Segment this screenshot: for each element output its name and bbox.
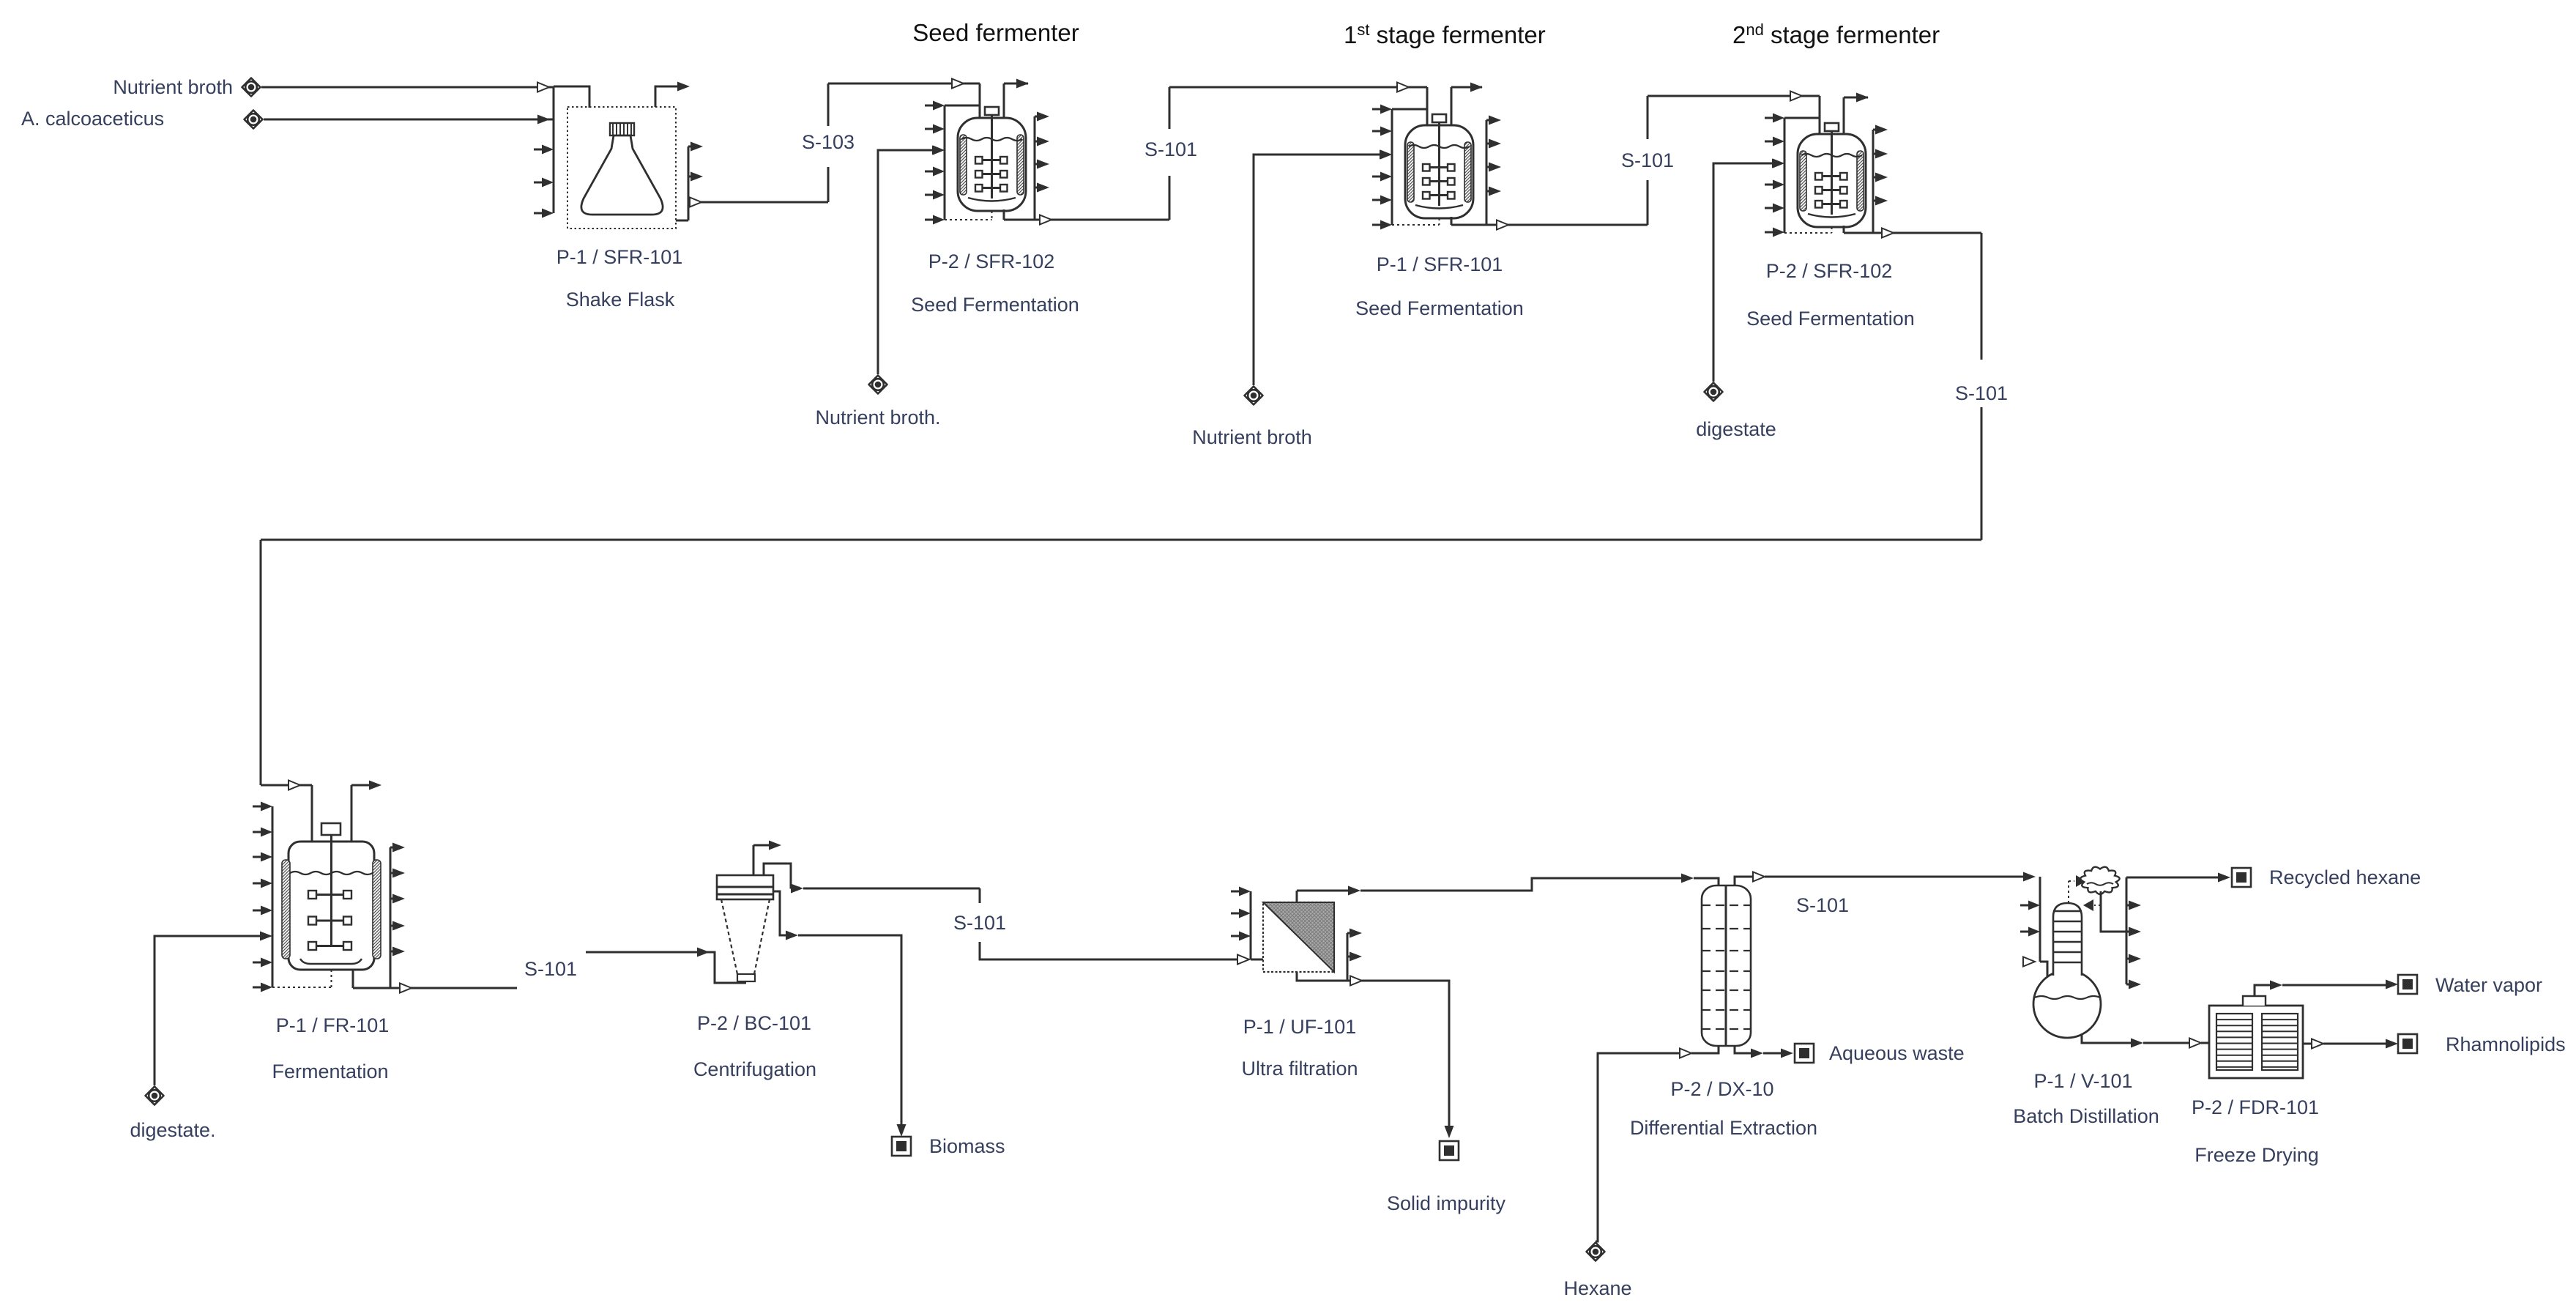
unit SFR-101: right manifold xyxy=(688,146,690,220)
svg-text:P-2 / FDR-101: P-2 / FDR-101 xyxy=(2192,1096,2319,1118)
unit V-101: left manifold xyxy=(2039,877,2041,962)
svg-text:Nutrient broth: Nutrient broth xyxy=(1192,426,1312,448)
svg-text:1st stage fermenter: 1st stage fermenter xyxy=(1344,21,1546,48)
svg-text:P-2 / SFR-102: P-2 / SFR-102 xyxy=(1766,260,1893,282)
svg-text:P-1 / FR-101: P-1 / FR-101 xyxy=(276,1014,390,1036)
wire: digestate riser to 2nd stage fermenter xyxy=(1713,163,1773,382)
wire: UF-101 bottom outlet to Solid impurity xyxy=(1297,972,1445,981)
wire: BC-101 cake stream down to Biomass xyxy=(773,891,794,935)
wire: FR-101 outlet xyxy=(352,970,354,988)
wire S-101 d: run to label riser xyxy=(803,888,980,890)
svg-text:Fermentation: Fermentation xyxy=(272,1061,388,1082)
wire: DX-10 bottom outlet to Aqueous waste xyxy=(1735,1046,1760,1053)
unit SFR-101 shake flask: left manifold xyxy=(553,86,555,213)
svg-text:Seed Fermentation: Seed Fermentation xyxy=(911,294,1079,316)
svg-text:Differential Extraction: Differential Extraction xyxy=(1630,1117,1817,1139)
unit V-101: column neck xyxy=(2053,903,2082,976)
svg-text:S-101: S-101 xyxy=(524,958,577,980)
wire: 1st stage outlet to S-101 riser xyxy=(1451,224,1648,226)
wire S-101 long: down riser segments xyxy=(1981,233,1983,360)
unit UF-101: right manifold xyxy=(1347,933,1349,981)
svg-text:digestate.: digestate. xyxy=(130,1119,215,1141)
svg-text:Hexane: Hexane xyxy=(1563,1277,1631,1299)
wire: feed into FR-101 xyxy=(261,784,312,787)
unit FR-101: bottom dish xyxy=(300,959,362,964)
unit SFR-101: dotted enclosure box xyxy=(567,107,676,229)
svg-text:Batch Distillation: Batch Distillation xyxy=(2013,1105,2159,1127)
unit SFR-102 2nd stage fermenter vessel and manifolds xyxy=(1784,118,1786,233)
node: Recycled hexane output icon xyxy=(2232,868,2251,887)
svg-text:Aqueous waste: Aqueous waste xyxy=(1829,1042,1965,1064)
svg-text:Freeze Drying: Freeze Drying xyxy=(2195,1144,2319,1166)
node: Hexane input icon xyxy=(1587,1243,1605,1261)
wire S-103: shake flask outlet xyxy=(688,201,828,204)
unit V-101: condenser cloud xyxy=(2080,867,2119,894)
unit FDR-101: left shelf stack xyxy=(2216,1014,2252,1070)
wire: Nutrient broth riser to 1st stage fermenter xyxy=(1254,155,1381,385)
node: Nutrient broth. input icon xyxy=(869,376,887,394)
wire: FDR-101 product to Rhamnolipids xyxy=(2303,1043,2318,1045)
unit SFR-101: erlenmeyer flask body xyxy=(581,135,663,215)
svg-text:P-1 / UF-101: P-1 / UF-101 xyxy=(1243,1016,1357,1038)
wire: BC-101 overflow zigzag out xyxy=(764,864,800,888)
unit FDR-101: top notch xyxy=(2243,996,2266,1006)
node: A. calcoaceticus input icon xyxy=(245,111,263,129)
wire: box bottom to right manifold xyxy=(676,220,688,222)
wire: digestate. riser to FR-101 xyxy=(155,936,261,1085)
wire S-103: top run into SFR-102 xyxy=(828,83,980,85)
unit DX-10: column body xyxy=(1702,885,1751,1046)
unit V-101: dashed vapor line to condenser xyxy=(2068,881,2069,903)
svg-text:S-101: S-101 xyxy=(1144,138,1197,160)
unit SFR-102 seed fermenter vessel and manifolds xyxy=(944,105,946,220)
wire: SFR-102 outlet to S-101 riser xyxy=(1004,219,1169,221)
svg-text:Seed Fermentation: Seed Fermentation xyxy=(1746,308,1915,330)
svg-text:Nutrient broth.: Nutrient broth. xyxy=(815,406,940,428)
unit FR-101: left manifold xyxy=(272,806,274,987)
unit UF-101: left manifold xyxy=(1250,891,1252,959)
unit BC-101: top rectangle xyxy=(717,875,773,899)
unit V-101: flask liquid wavy xyxy=(2035,996,2100,999)
wire S-103: riser segments xyxy=(827,167,830,202)
svg-text:A. calcoaceticus: A. calcoaceticus xyxy=(21,108,164,130)
unit V-101: reflux dashed arrow xyxy=(2094,905,2101,906)
svg-text:Nutrient broth: Nutrient broth xyxy=(113,76,233,98)
node: Solid impurity output icon xyxy=(1440,1141,1459,1160)
svg-text:P-1 / V-101: P-1 / V-101 xyxy=(2033,1070,2132,1092)
wire: 2nd stage outlet xyxy=(1844,232,1981,234)
svg-text:P-2 / DX-10: P-2 / DX-10 xyxy=(1670,1078,1773,1100)
unit SFR-101: flask cap xyxy=(610,123,634,135)
svg-text:S-101: S-101 xyxy=(953,912,1006,934)
svg-text:Recycled hexane: Recycled hexane xyxy=(2269,866,2421,888)
unit FR-101: vent xyxy=(351,785,353,844)
svg-text:S-101: S-101 xyxy=(1796,894,1849,916)
unit FR-101: vessel xyxy=(289,842,374,970)
unit FDR-101: right shelf stack xyxy=(2262,1014,2298,1070)
wire S-101: top run into SFR-101 xyxy=(1169,86,1427,89)
unit FR-101: right manifold xyxy=(390,847,392,988)
svg-text:S-101: S-101 xyxy=(1621,149,1674,171)
wire: condenser outlet to right manifold xyxy=(2101,891,2126,932)
wire: A. calcoaceticus to shake-flask manifold xyxy=(264,119,554,121)
wire S-101 long: down to fermentation xyxy=(260,540,262,785)
svg-text:P-2 / SFR-102: P-2 / SFR-102 xyxy=(928,250,1055,272)
unit V-101: flask body xyxy=(2033,970,2101,1038)
unit BC-101: cone xyxy=(721,899,770,974)
wire S-101 b: top run into 2nd stage xyxy=(1648,95,1820,97)
svg-text:S-101: S-101 xyxy=(1955,382,2008,404)
svg-text:Centrifugation: Centrifugation xyxy=(693,1058,816,1080)
node: Biomass output icon xyxy=(892,1137,911,1156)
wire S-101 b: riser segments xyxy=(1647,180,1649,225)
node: Water vapor output icon xyxy=(2398,975,2417,994)
svg-text:2nd stage fermenter: 2nd stage fermenter xyxy=(1732,21,1940,48)
wire: DX-10 top outlet to V-101 xyxy=(1735,877,1760,885)
unit FR-101: cap and shaft xyxy=(321,823,340,835)
wire: Nutrient broth to shake-flask manifold xyxy=(261,86,554,89)
svg-text:Rhamnolipids: Rhamnolipids xyxy=(2446,1033,2566,1055)
wire: feed into shake flask box xyxy=(554,86,589,108)
svg-text:Shake Flask: Shake Flask xyxy=(566,289,675,311)
wire: FDR-101 vent to Water vapor xyxy=(2255,985,2279,996)
svg-text:P-1 / SFR-101: P-1 / SFR-101 xyxy=(556,246,683,268)
node: Nutrient broth input icon xyxy=(242,78,261,97)
unit FR-101: liquid wavy line xyxy=(290,872,373,874)
node: Aqueous waste output icon xyxy=(1795,1044,1814,1063)
unit BC-101: bottom spout xyxy=(737,974,755,981)
unit BC-101: vent xyxy=(753,845,755,875)
unit DX-10: trays xyxy=(1702,905,1751,906)
svg-text:Seed fermenter: Seed fermenter xyxy=(912,19,1079,46)
svg-text:digestate: digestate xyxy=(1696,418,1776,440)
wire: Hexane riser into DX-10 bottom xyxy=(1596,1053,1687,1241)
wire: UF-101 top outlet to DX-10 xyxy=(1296,891,1298,902)
svg-text:S-103: S-103 xyxy=(802,131,855,153)
svg-text:Ultra filtration: Ultra filtration xyxy=(1241,1058,1358,1080)
svg-text:P-1 / SFR-101: P-1 / SFR-101 xyxy=(1377,253,1503,275)
unit V-101: column trays xyxy=(2053,910,2082,912)
unit UF-101: membrane square xyxy=(1263,902,1334,972)
node: Nutrient broth input icon 2 xyxy=(1245,387,1263,405)
wire: V-101 feed elbow into flask xyxy=(2040,962,2047,977)
wire S-101 long: return run across sheet xyxy=(261,539,1981,541)
wire S-101: riser segments xyxy=(1169,176,1171,220)
node: Rhamnolipids output icon xyxy=(2398,1034,2417,1053)
wire: V-101 bottoms to FDR-101 xyxy=(2082,1034,2140,1043)
wire: Nutrient broth. riser to SFR-102 xyxy=(878,150,934,374)
wire S-101 c: resumed run to centrifuge xyxy=(586,951,710,954)
unit FR-101: jacket left xyxy=(282,860,290,959)
unit FDR-101: cabinet xyxy=(2209,1006,2303,1078)
svg-text:P-2 / BC-101: P-2 / BC-101 xyxy=(697,1012,811,1034)
svg-text:Biomass: Biomass xyxy=(929,1135,1005,1157)
svg-text:Water vapor: Water vapor xyxy=(2435,974,2542,996)
unit FR-101: jacket right xyxy=(373,860,381,959)
unit FR-101: impellers xyxy=(316,894,344,896)
node: digestate. input icon xyxy=(146,1087,164,1105)
svg-text:Seed Fermentation: Seed Fermentation xyxy=(1355,297,1524,319)
unit FR-101: dashed drain xyxy=(331,970,332,987)
wire: distillate to Recycled hexane xyxy=(2126,877,2227,879)
svg-text:Solid impurity: Solid impurity xyxy=(1387,1192,1506,1214)
node: digestate input icon xyxy=(1705,383,1723,401)
wire S-101 d: down and to UF xyxy=(980,942,1245,959)
wire: shake flask vent xyxy=(655,86,687,107)
unit SFR-101 1st stage fermenter vessel and manifolds xyxy=(1391,109,1393,225)
unit V-101: right manifold xyxy=(2126,877,2128,984)
